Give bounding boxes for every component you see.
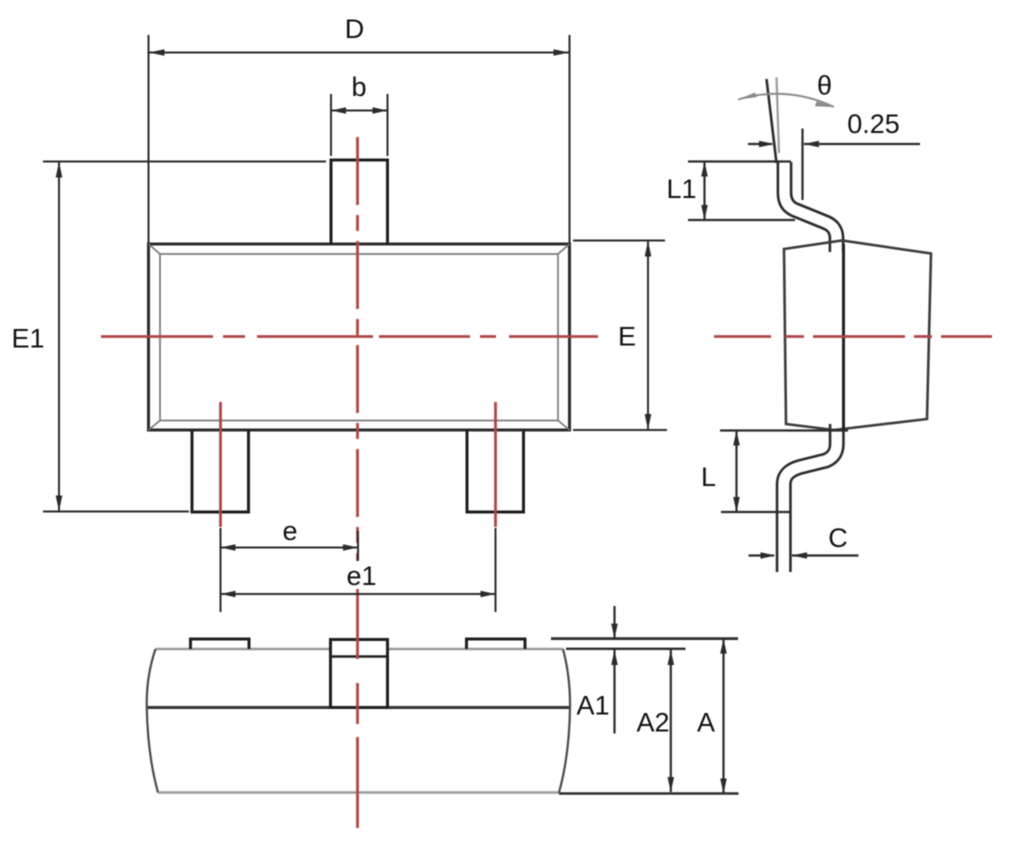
red horizontal centerline of top view: [101, 335, 598, 338]
dimension C line left part with right arrow: [749, 554, 775, 556]
front view left side curve: [147, 649, 158, 793]
svg-text:E1: E1: [11, 324, 44, 354]
red vertical centerline through package center (upper part): [356, 137, 359, 600]
b arrow left: [331, 107, 346, 114]
E arrow up: [645, 241, 652, 257]
e1 arrow left: [221, 591, 236, 598]
theta arc arrow right: [815, 101, 834, 107]
top view body outer outline: [149, 244, 570, 430]
dimension E1 bottom reference line: [43, 511, 189, 513]
D arrow left: [149, 49, 165, 56]
label e1: [342, 561, 380, 589]
D arrow right: [554, 49, 570, 56]
bevel corner diagonal top-left: [149, 244, 161, 254]
dimension D line: [149, 52, 570, 54]
bevel corner diagonal bottom-right: [558, 421, 570, 431]
bottom right pin (lead 3): [467, 430, 524, 512]
dimension 0.25 line right part with left arrow: [804, 143, 920, 145]
dimension L1 bottom reference line: [688, 219, 795, 221]
dimension b line: [331, 110, 388, 112]
bottom left pin (lead 1): [192, 430, 249, 512]
front view center lead: [331, 640, 388, 708]
dimension A line: [722, 639, 724, 794]
svg-text:L: L: [701, 462, 716, 492]
dimension E line: [647, 241, 649, 431]
front view body top edge: [156, 648, 564, 650]
dimension E1 line: [58, 162, 60, 512]
body top extension line (A2 reference): [566, 648, 686, 650]
body bottom extension line: [559, 792, 739, 794]
E arrow down: [645, 414, 652, 430]
dimension L line: [735, 431, 737, 513]
dimension E top reference line: [573, 240, 665, 242]
front view right side curve: [559, 649, 570, 793]
b arrow right: [373, 107, 388, 114]
upper lead tilted tip left edge: [767, 79, 777, 163]
bevel corner diagonal top-right: [558, 244, 570, 254]
phantom unbent lead line: [777, 78, 780, 154]
svg-text:0.25: 0.25: [847, 109, 900, 139]
gauge plane vertical line: [801, 129, 803, 201]
dimension C line right part with left arrow: [792, 554, 859, 556]
dimension e1 line: [221, 593, 496, 595]
dimension b extension lines: [331, 94, 388, 156]
svg-text:C: C: [828, 523, 848, 553]
top view body inner bevel outline: [160, 254, 558, 421]
svg-text:e1: e1: [346, 561, 376, 591]
dimension A1 lower line with up arrow: [613, 650, 615, 734]
dimension e extension line at center: [357, 531, 359, 565]
front view body bottom edge: [158, 791, 559, 793]
lower lead S-bend band: [784, 424, 837, 572]
seating plane reference line (A): [551, 637, 738, 640]
red vertical centerline through package center (front view part): [356, 600, 359, 828]
svg-text:D: D: [345, 14, 365, 44]
dimension L top reference line: [720, 429, 848, 431]
dimension D extension lines: [149, 35, 570, 244]
svg-text:A1: A1: [576, 691, 609, 721]
svg-text:θ: θ: [817, 71, 832, 101]
dimension e extension line at left pin: [220, 528, 222, 612]
svg-text:b: b: [351, 72, 366, 102]
dimension E bottom reference line: [573, 429, 667, 431]
svg-text:L1: L1: [666, 174, 696, 204]
red centerline through right pin: [494, 402, 497, 527]
bevel corner diagonal bottom-left: [149, 421, 161, 431]
dimension 0.25 line left part with right arrow: [748, 143, 772, 145]
dimension e1 extension line at right pin: [495, 528, 497, 612]
upper lead S-bend band: [785, 162, 837, 252]
e arrow right: [343, 544, 358, 551]
dimension L bottom reference line: [721, 511, 791, 513]
top center pin (lead 2): [331, 160, 388, 244]
red horizontal centerline of side view: [714, 335, 992, 338]
svg-text:A2: A2: [636, 708, 669, 738]
front view center lead shoulder line: [331, 655, 388, 658]
E1 arrow up: [56, 162, 63, 178]
front view mold parting line: [148, 706, 570, 709]
side view body outline: [784, 241, 931, 431]
red centerline through left pin: [219, 402, 222, 527]
dimension L1 line: [703, 162, 705, 221]
dimension e line: [221, 547, 359, 549]
front view left lead tab: [191, 639, 250, 649]
e1 arrow right: [481, 591, 496, 598]
lead line through body: [842, 244, 845, 430]
dimension A2 line: [670, 650, 672, 792]
front view right lead tab: [467, 639, 526, 649]
theta arc arrow left: [738, 93, 757, 100]
svg-text:e: e: [282, 516, 297, 546]
E1 arrow down: [56, 496, 63, 512]
svg-text:A: A: [697, 708, 715, 738]
e arrow left: [221, 544, 236, 551]
svg-text:E: E: [618, 322, 636, 352]
dimension A1 upper line with down arrow: [613, 606, 615, 639]
theta dimension arc: [738, 94, 834, 107]
dimension L1 top reference line: [688, 160, 791, 162]
dimension E1 top reference line: [43, 161, 326, 163]
